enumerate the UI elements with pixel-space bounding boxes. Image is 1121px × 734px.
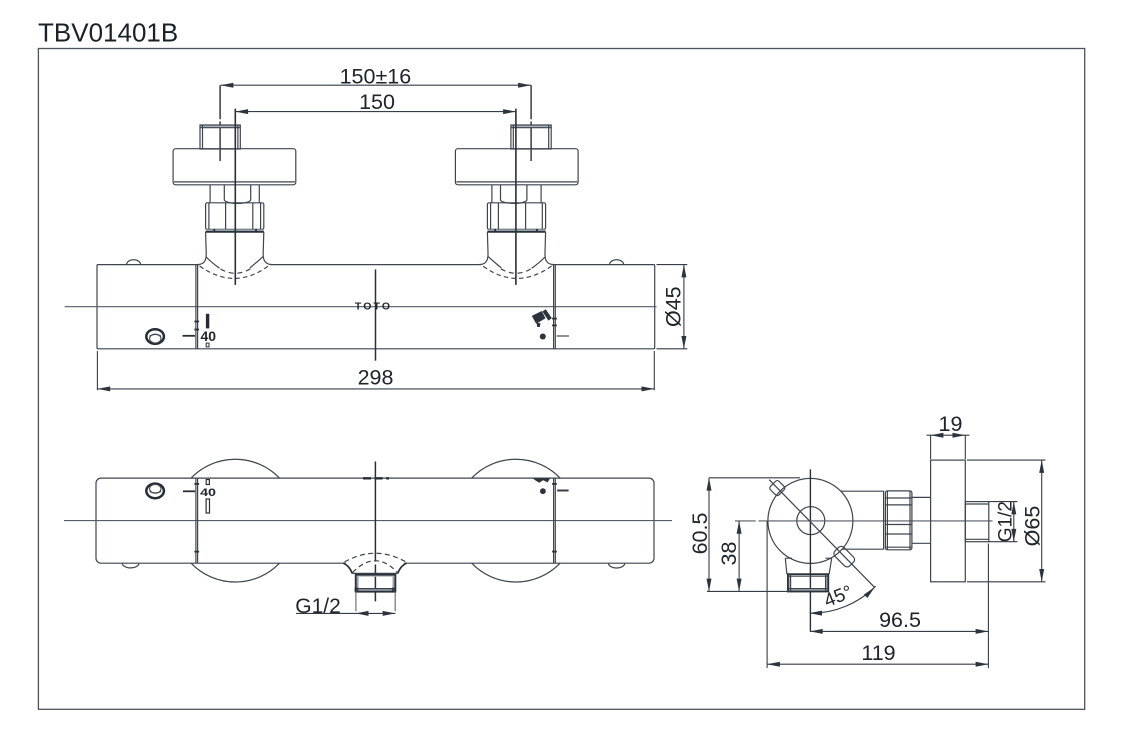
- svg-text:40: 40: [200, 485, 216, 498]
- svg-text:TOTO: TOTO: [355, 301, 392, 313]
- side view horizontal centerline: [735, 520, 993, 522]
- spout nut (side view): [788, 574, 790, 591]
- handle axis diagonal 45°: [769, 480, 874, 588]
- svg-text:96.5: 96.5: [879, 608, 921, 632]
- left handle circle arcs: [191, 459, 279, 478]
- shower icon edge-on (bottom view): [533, 478, 550, 482]
- dimension 150: [235, 111, 516, 113]
- safety button (bottom view): [146, 484, 164, 499]
- dimension 96.5: [987, 544, 989, 669]
- temperature index dash: [183, 335, 196, 337]
- temperature dash (bottom view): [183, 490, 195, 492]
- tick above 40 (bottom view): [206, 480, 209, 485]
- scale bar outline (bottom view): [206, 499, 209, 513]
- left handle assembly (front view): [173, 85, 296, 285]
- body horizontal centerline: [65, 306, 657, 308]
- mounting bump right (top of body): [610, 260, 624, 265]
- body boss (bell): [198, 232, 206, 265]
- temperature lever tab: [769, 480, 786, 497]
- flow dot (bottom view): [540, 488, 546, 494]
- small tick below 40: [206, 343, 209, 347]
- svg-text:150±16: 150±16: [340, 64, 412, 88]
- dimension Ø65: [967, 459, 1046, 461]
- svg-text:298: 298: [358, 365, 394, 389]
- svg-text:G1/2: G1/2: [295, 595, 341, 618]
- dimension 45° arc: [810, 586, 875, 613]
- outlet flange line: [352, 572, 398, 574]
- body vertical centerline: [375, 269, 377, 360]
- svg-text:Ø65: Ø65: [1021, 506, 1045, 547]
- union knurled nut: [885, 491, 912, 550]
- dimension 38: [738, 521, 740, 592]
- flow dash (bottom view): [557, 490, 569, 492]
- wall supply pipe G1/2: [965, 502, 989, 542]
- spindle square head: [200, 125, 240, 127]
- outlet nut: [356, 575, 359, 592]
- outlet fillet right: [398, 563, 407, 573]
- centerline gap marks (side view): [756, 520, 759, 523]
- svg-text:60.5: 60.5: [688, 513, 712, 555]
- right seam (bottom view): [553, 478, 555, 563]
- inlet horn: [841, 490, 885, 492]
- erase body edge behind outlet dome: [346, 562, 404, 565]
- knurled base nut: [206, 203, 264, 230]
- dimension 19: [930, 435, 932, 459]
- hidden outlet dashes on top edge: [363, 477, 389, 479]
- dimension 60.5: [709, 477, 800, 479]
- dimension 119: [766, 521, 768, 668]
- dimension 298: [96, 351, 98, 390]
- foot bump right: [609, 563, 625, 568]
- erase body edge behind boss: [199, 263, 270, 266]
- svg-text:TBV01401B: TBV01401B: [38, 18, 178, 48]
- foot bump left: [122, 563, 139, 568]
- right handle assembly (front view, mirrored): [455, 85, 578, 285]
- flow index dash (gray): [557, 335, 569, 337]
- inlet centerline / 150 extension: [234, 109, 236, 285]
- valve body (front view): [97, 265, 655, 349]
- left seam (bottom view): [195, 478, 197, 563]
- safety stop button: [146, 329, 164, 344]
- dimension G1/2 (outlet): [296, 612, 395, 614]
- boss fillet arc (solid ends): [206, 257, 219, 268]
- svg-text:Ø45: Ø45: [662, 286, 686, 327]
- bottom view horizontal centerline: [64, 520, 672, 522]
- left end-cap seam: [195, 265, 197, 349]
- outlet thread tail: [355, 592, 357, 612]
- right end-cap seam: [553, 265, 555, 349]
- mounting bump left (top of body): [127, 260, 141, 265]
- handle stem: [209, 185, 211, 203]
- spout neck (side view): [785, 558, 831, 574]
- outlet bore circle: [797, 507, 825, 535]
- dimension 150±16: [221, 84, 531, 86]
- svg-text:119: 119: [861, 641, 895, 665]
- right handle circle arcs: [472, 459, 560, 478]
- svg-text:38: 38: [717, 542, 741, 566]
- flow indicator dot: [540, 334, 546, 340]
- valve body (bottom view): [96, 478, 654, 563]
- outlet fillet left: [343, 563, 352, 573]
- wall flange: [931, 460, 966, 582]
- svg-text:19: 19: [939, 412, 963, 436]
- svg-text:G1/2: G1/2: [996, 501, 1017, 542]
- shower icon: [532, 311, 546, 324]
- boss fillet arc (dashed middle): [221, 269, 251, 274]
- bar body circle (side view): [768, 478, 853, 563]
- flow lever: [832, 545, 856, 569]
- dimension G1/2 (wall pipe): [989, 501, 1018, 503]
- hidden boss arc (dashed): [200, 266, 269, 279]
- bottom view vertical centerline: [374, 462, 376, 602]
- handle axis extension line (150±16): [219, 85, 221, 161]
- svg-text:150: 150: [359, 90, 395, 114]
- connector pipe: [912, 496, 931, 498]
- handle knob: [173, 149, 296, 185]
- seam index ticks right: [552, 318, 557, 320]
- hidden outlet boss arcs (dashed): [345, 553, 407, 562]
- temperature scale bar: [206, 314, 209, 329]
- seam ticks (bottom view): [194, 483, 199, 485]
- side view vertical centerline: [809, 469, 811, 631]
- dimension Ø45: [657, 264, 688, 266]
- seam index ticks left: [194, 321, 199, 323]
- svg-text:40: 40: [201, 328, 217, 344]
